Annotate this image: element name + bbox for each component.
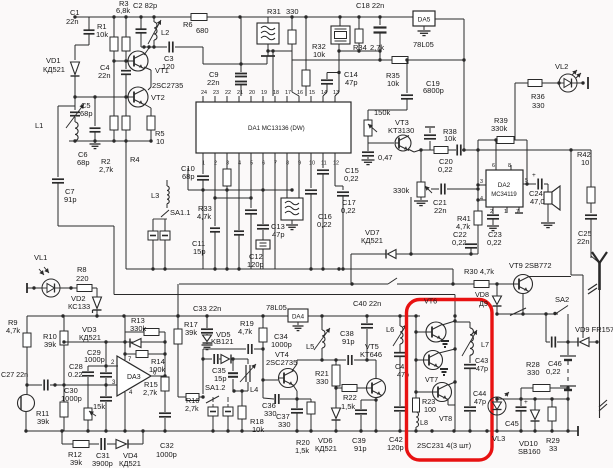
svg-text:0,47: 0,47 [378,153,393,162]
svg-text:23: 23 [213,90,219,96]
svg-text:120p: 120p [247,260,264,269]
svg-text:R8: R8 [77,265,87,274]
svg-text:L1: L1 [35,121,43,130]
svg-text:330k: 330k [491,124,508,133]
svg-text:10: 10 [581,158,589,167]
svg-text:680: 680 [196,26,209,35]
svg-text:SB160: SB160 [518,447,541,456]
svg-text:12: 12 [333,161,339,167]
svg-text:R31: R31 [267,7,281,16]
svg-text:15p: 15p [214,374,227,383]
svg-text:КД521: КД521 [361,236,383,245]
svg-text:15: 15 [309,90,315,96]
svg-text:4,7k: 4,7k [6,326,20,335]
svg-text:330k: 330k [130,324,147,333]
svg-text:КД521: КД521 [79,333,101,342]
svg-text:VT2: VT2 [151,93,165,102]
svg-text:C2 82p: C2 82p [133,1,157,10]
svg-text:1000p: 1000p [271,340,292,349]
svg-text:39k: 39k [70,458,82,467]
svg-text:VD8: VD8 [475,290,489,299]
svg-text:1,5k: 1,5k [341,402,355,411]
svg-text:1000p: 1000p [84,355,105,364]
svg-text:KT3130: KT3130 [388,126,414,135]
svg-text:R22: R22 [343,393,357,402]
svg-text:1000p: 1000p [61,394,82,403]
svg-text:L7: L7 [481,340,489,349]
svg-text:10k: 10k [387,79,399,88]
svg-text:39k: 39k [185,328,197,337]
svg-text:+: + [524,399,528,406]
svg-text:C1: C1 [70,8,80,17]
svg-text:Д9: Д9 [479,299,488,308]
svg-text:6: 6 [492,163,495,169]
svg-text:1000p: 1000p [156,450,177,459]
svg-text:220: 220 [76,274,89,283]
svg-text:0,22: 0,22 [341,206,356,215]
svg-text:78L05: 78L05 [413,40,434,49]
svg-text:20: 20 [249,90,255,96]
svg-text:19: 19 [261,90,267,96]
svg-text:0,22: 0,22 [452,238,467,247]
svg-text:КД521: КД521 [43,65,65,74]
svg-text:SA1.1: SA1.1 [170,208,190,217]
svg-text:L3: L3 [151,191,159,200]
svg-text:330k: 330k [393,186,410,195]
svg-text:150k: 150k [374,108,391,117]
svg-text:C45: C45 [505,419,519,428]
svg-text:0.22: 0.22 [68,370,83,379]
svg-text:91p: 91p [64,195,77,204]
svg-text:2,7k: 2,7k [99,165,113,174]
svg-text:4,7k: 4,7k [197,212,211,221]
svg-text:KT646: KT646 [360,350,382,359]
svg-text:DA1 MC13136 (DW): DA1 MC13136 (DW) [248,125,305,132]
svg-text:VT7: VT7 [425,375,438,384]
svg-text:2,7k: 2,7k [370,43,384,52]
svg-text:2SC231 4(3 шт): 2SC231 4(3 шт) [417,441,472,450]
svg-text:DA5: DA5 [418,17,431,24]
svg-text:330: 330 [286,7,299,16]
svg-text:R6: R6 [183,20,193,29]
svg-text:0,22: 0,22 [344,174,359,183]
svg-text:39k: 39k [44,340,56,349]
svg-text:10k: 10k [313,50,325,59]
svg-text:11: 11 [321,161,327,167]
svg-text:68p: 68p [80,109,93,118]
svg-text:L5: L5 [306,342,314,351]
svg-text:6800p: 6800p [423,86,444,95]
svg-text:21: 21 [237,90,243,96]
svg-text:VT6: VT6 [424,297,437,306]
svg-text:100k: 100k [149,365,166,374]
svg-text:2SC2735: 2SC2735 [266,358,297,367]
svg-text:15p: 15p [193,247,206,256]
svg-text:КС133: КС133 [68,302,90,311]
svg-text:0,22: 0,22 [546,367,561,376]
svg-text:VL2: VL2 [555,62,568,71]
svg-text:0,22: 0,22 [438,165,453,174]
svg-text:VL1: VL1 [34,253,47,262]
svg-text:C18 22n: C18 22n [356,1,384,10]
svg-text:+: + [532,172,536,179]
svg-text:22n: 22n [434,206,447,215]
svg-text:SA2: SA2 [555,295,569,304]
svg-text:4: 4 [480,196,483,202]
svg-text:0,22: 0,22 [487,238,502,247]
svg-text:100: 100 [424,405,436,414]
svg-text:R34: R34 [353,43,367,52]
svg-text:330: 330 [278,420,291,429]
svg-text:C40 22n: C40 22n [353,299,381,308]
svg-text:22n: 22n [98,71,111,80]
svg-text:2,7k: 2,7k [185,404,199,413]
svg-text:L2: L2 [161,28,169,37]
svg-text:91p: 91p [354,444,367,453]
svg-text:10k: 10k [252,425,264,434]
svg-text:VD9 FR157: VD9 FR157 [575,325,613,334]
svg-text:22n: 22n [577,237,590,246]
svg-text:3900p: 3900p [92,459,113,468]
svg-text:1,5k: 1,5k [295,446,309,455]
svg-text:C32: C32 [160,441,174,450]
svg-text:47p: 47p [345,78,358,87]
svg-text:VT8: VT8 [439,414,452,423]
svg-text:L6: L6 [386,325,394,334]
svg-text:КД521: КД521 [315,444,337,453]
svg-text:VL3: VL3 [492,434,505,443]
svg-text:DA2: DA2 [498,182,511,189]
svg-text:0,22: 0,22 [317,220,332,229]
svg-text:3: 3 [480,179,483,185]
svg-text:R36: R36 [531,92,545,101]
svg-text:15k: 15k [93,402,105,411]
svg-text:68p: 68p [77,158,90,167]
svg-text:VT9 2SB772: VT9 2SB772 [509,261,552,270]
svg-text:10k: 10k [96,30,108,39]
svg-text:SA1.2: SA1.2 [205,383,225,392]
svg-text:L4: L4 [250,385,258,394]
svg-text:2SC2735: 2SC2735 [152,81,183,90]
svg-text:120p: 120p [387,443,404,452]
svg-text:22n: 22n [66,17,79,26]
svg-text:17: 17 [285,90,291,96]
svg-text:91p: 91p [342,337,355,346]
svg-text:KB121: KB121 [211,337,234,346]
svg-text:4,7k: 4,7k [238,327,252,336]
svg-text:78L05: 78L05 [266,303,287,312]
svg-text:MC34119: MC34119 [491,192,517,198]
svg-text:22: 22 [225,90,231,96]
svg-text:24: 24 [201,90,207,96]
svg-text:18: 18 [273,90,279,96]
svg-text:47p: 47p [476,364,488,373]
svg-text:6,8k: 6,8k [116,6,130,15]
svg-text:10k: 10k [444,134,456,143]
svg-text:330: 330 [264,409,277,418]
svg-text:VD1: VD1 [46,56,61,65]
svg-text:10: 10 [309,161,315,167]
svg-text:КД521: КД521 [119,459,141,468]
svg-text:4,7k: 4,7k [456,222,470,231]
svg-text:C27 22n: C27 22n [1,370,28,379]
svg-text:DA4: DA4 [292,314,305,321]
svg-text:330: 330 [527,368,540,377]
svg-text:L8: L8 [420,418,428,427]
svg-text:R4: R4 [130,155,140,164]
svg-text:VT1: VT1 [155,66,169,75]
svg-text:330: 330 [532,101,545,110]
svg-text:DA3: DA3 [127,374,141,381]
svg-text:22n: 22n [207,78,220,87]
svg-text:C33 22n: C33 22n [193,304,221,313]
svg-text:2,7k: 2,7k [143,388,157,397]
svg-text:47p: 47p [272,230,285,239]
svg-text:33: 33 [549,444,557,453]
svg-text:47p: 47p [474,397,486,406]
svg-text:10: 10 [156,137,164,146]
svg-text:47,0: 47,0 [530,197,545,206]
svg-text:330: 330 [316,377,329,386]
svg-text:R30 4,7k: R30 4,7k [464,267,494,276]
svg-text:39k: 39k [37,417,49,426]
